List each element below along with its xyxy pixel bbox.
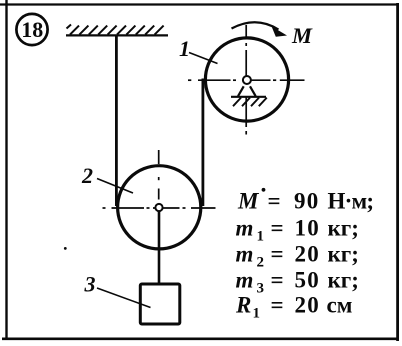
ceiling support with hatching xyxy=(66,25,168,36)
svg-text:3: 3 xyxy=(84,272,96,297)
pulley 2 centerline horizontal (dash-dot) xyxy=(103,207,216,209)
svg-text:2: 2 xyxy=(81,163,93,188)
pulley 1 centerline vertical (dash-dot) xyxy=(245,25,247,135)
label 2 (pulley 2) with leader xyxy=(81,163,133,193)
problem number badge 18 xyxy=(16,14,47,45)
label 3 (weight) with leader xyxy=(84,272,151,308)
pulley 2 xyxy=(118,166,201,249)
svg-text:M: M xyxy=(291,23,313,48)
pulley 1 centerline horizontal (dash-dot) xyxy=(188,79,305,81)
svg-text:18: 18 xyxy=(21,17,43,42)
pulley 2 axle hub xyxy=(155,204,162,211)
torque arc arrow M on pulley 1 xyxy=(232,22,288,37)
label 1 (pulley 1) with leader xyxy=(179,36,218,64)
frame right border xyxy=(396,3,399,341)
frame top border xyxy=(0,3,398,5)
stray ink speck xyxy=(64,247,67,250)
pin support of pulley 1 xyxy=(231,86,267,106)
pulley 2 centerline vertical (dash-dot) xyxy=(158,150,160,200)
svg-text:M=90Н·м;: M=90Н·м; xyxy=(237,189,373,214)
pulley 1 axle hub xyxy=(243,76,251,84)
frame bottom border xyxy=(2,337,399,340)
wire: rope from pulley 1 to pulley 2 (right) xyxy=(201,79,204,207)
given data text block xyxy=(235,188,373,322)
wire: rope from ceiling to pulley 2 (left) xyxy=(115,35,118,206)
pulley 1 xyxy=(205,38,288,121)
weight 3 (load block) xyxy=(140,284,180,324)
frame left border xyxy=(5,0,7,339)
wire: cord from pulley 2 axle to weight 3 xyxy=(158,210,161,283)
svg-text:1: 1 xyxy=(179,36,190,61)
